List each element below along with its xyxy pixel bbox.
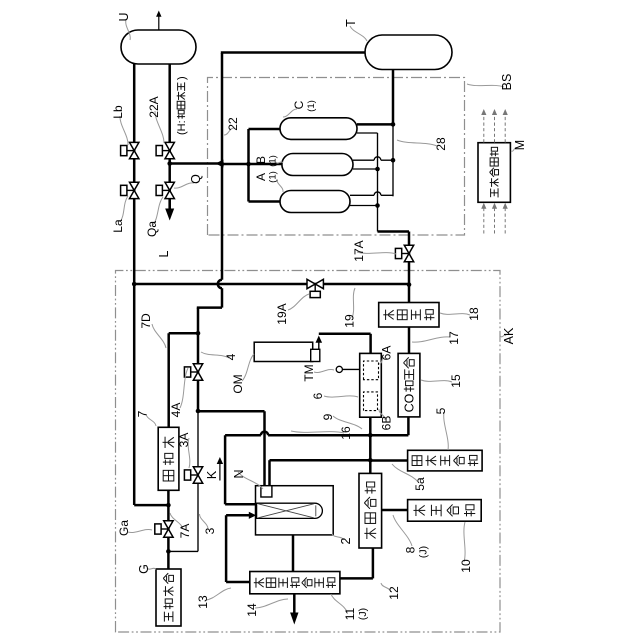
svg-text:15: 15 bbox=[449, 374, 463, 388]
svg-text:3: 3 bbox=[203, 527, 217, 534]
svg-text:19: 19 bbox=[343, 314, 357, 328]
svg-text:6: 6 bbox=[311, 392, 325, 399]
svg-text:16: 16 bbox=[339, 426, 353, 440]
svg-text:10: 10 bbox=[459, 559, 473, 573]
svg-text:T: T bbox=[344, 19, 358, 27]
svg-text:Qa: Qa bbox=[145, 221, 159, 237]
svg-text:13: 13 bbox=[196, 595, 210, 609]
svg-text:9: 9 bbox=[321, 413, 335, 420]
svg-text:AK: AK bbox=[502, 327, 516, 344]
svg-text:17: 17 bbox=[447, 331, 461, 345]
svg-text:La: La bbox=[111, 219, 125, 233]
svg-text:22: 22 bbox=[226, 117, 240, 131]
svg-text:): ) bbox=[176, 76, 188, 80]
svg-text:7D: 7D bbox=[139, 313, 153, 329]
svg-text:11: 11 bbox=[343, 607, 357, 620]
svg-text:C: C bbox=[292, 100, 306, 109]
svg-text:CO: CO bbox=[402, 393, 416, 412]
svg-text:8: 8 bbox=[404, 546, 418, 553]
svg-text:22A: 22A bbox=[147, 96, 161, 117]
svg-text:19A: 19A bbox=[275, 303, 289, 324]
svg-text:B: B bbox=[254, 156, 268, 164]
svg-text:L: L bbox=[157, 250, 171, 257]
svg-text:7: 7 bbox=[136, 410, 150, 417]
svg-text:A: A bbox=[254, 173, 268, 181]
svg-text:6B: 6B bbox=[380, 416, 394, 431]
svg-text:5a: 5a bbox=[413, 477, 427, 491]
svg-text:6A: 6A bbox=[380, 346, 394, 361]
svg-text:3A: 3A bbox=[177, 433, 191, 448]
svg-text:5: 5 bbox=[434, 407, 448, 414]
svg-text:M: M bbox=[513, 140, 527, 150]
svg-text:(J): (J) bbox=[418, 546, 430, 558]
svg-text:U: U bbox=[117, 12, 131, 21]
svg-text:(1): (1) bbox=[268, 155, 279, 167]
svg-text:(J): (J) bbox=[357, 608, 369, 620]
svg-text:K: K bbox=[205, 470, 219, 479]
svg-text:7A: 7A bbox=[178, 524, 192, 539]
svg-text:4: 4 bbox=[224, 353, 238, 360]
svg-text:Q: Q bbox=[189, 174, 203, 184]
svg-text:17A: 17A bbox=[352, 240, 366, 261]
svg-text:OM: OM bbox=[231, 374, 245, 393]
svg-text:(H:: (H: bbox=[176, 120, 188, 135]
svg-text:12: 12 bbox=[387, 586, 401, 600]
svg-text:28: 28 bbox=[434, 137, 448, 151]
svg-text:BS: BS bbox=[500, 74, 514, 91]
svg-text:Ga: Ga bbox=[117, 520, 131, 536]
svg-text:Lb: Lb bbox=[111, 105, 125, 119]
svg-text:N: N bbox=[232, 469, 246, 478]
svg-text:(1): (1) bbox=[306, 100, 317, 112]
svg-text:2: 2 bbox=[339, 537, 353, 544]
svg-text:G: G bbox=[137, 564, 151, 574]
svg-text:(1): (1) bbox=[268, 171, 279, 183]
svg-text:14: 14 bbox=[245, 603, 259, 617]
svg-text:TM: TM bbox=[302, 364, 316, 381]
svg-text:4A: 4A bbox=[169, 403, 183, 418]
svg-text:18: 18 bbox=[467, 307, 481, 321]
